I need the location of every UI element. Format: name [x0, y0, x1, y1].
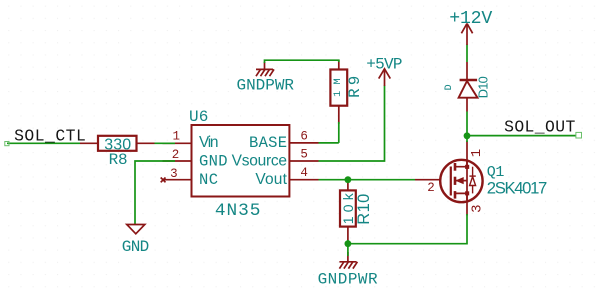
svg-text:1: 1: [469, 149, 485, 157]
svg-text:BASE: BASE: [249, 134, 287, 152]
svg-text:+12V: +12V: [449, 9, 492, 29]
svg-text:U6: U6: [189, 108, 208, 126]
svg-text:4N35: 4N35: [215, 201, 261, 221]
svg-text:Vout: Vout: [255, 171, 287, 188]
svg-text:Vsource: Vsource: [232, 152, 287, 169]
svg-text:D: D: [444, 84, 455, 90]
svg-text:1: 1: [173, 130, 181, 144]
svg-text:2: 2: [172, 148, 180, 162]
svg-text:Vin: Vin: [199, 134, 219, 151]
svg-text:SOL_CTL: SOL_CTL: [14, 127, 86, 146]
svg-text:3: 3: [469, 204, 485, 212]
svg-text:GND: GND: [199, 152, 228, 170]
svg-text:GND: GND: [122, 238, 149, 256]
svg-text:NC: NC: [199, 171, 218, 189]
svg-text:2: 2: [427, 181, 435, 195]
svg-text:D10: D10: [476, 76, 491, 98]
svg-text:6: 6: [300, 129, 308, 143]
svg-text:SOL_OUT: SOL_OUT: [504, 117, 575, 136]
svg-text:4: 4: [300, 166, 308, 180]
svg-text:2SK4017: 2SK4017: [487, 179, 548, 198]
svg-text:10k: 10k: [340, 192, 356, 224]
svg-text:R8: R8: [109, 151, 128, 169]
svg-text:GNDPWR: GNDPWR: [318, 270, 378, 288]
svg-text:+5VP: +5VP: [366, 55, 402, 73]
svg-text:3: 3: [170, 167, 178, 181]
svg-text:5: 5: [300, 148, 308, 162]
svg-text:R10: R10: [355, 194, 373, 225]
svg-text:GNDPWR: GNDPWR: [237, 77, 295, 95]
